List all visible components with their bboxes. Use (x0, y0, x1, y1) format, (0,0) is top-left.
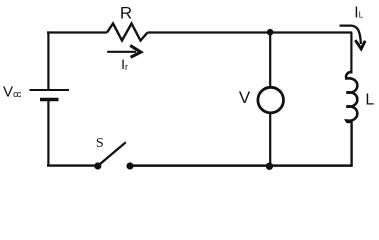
inductor L coil (346, 72, 357, 123)
wire right vertical lower (350, 121, 352, 167)
switch contact dot (126, 162, 133, 169)
wire top-right horizontal (148, 31, 353, 33)
switch pivot dot (94, 162, 101, 169)
wire bottom-right horizontal (130, 164, 352, 167)
svg-text:S: S (96, 136, 104, 151)
current arrow IL head (355, 40, 365, 49)
wire left vertical (47, 31, 49, 89)
wire right vertical upper (350, 33, 352, 74)
svg-text:L: L (365, 92, 374, 109)
junction node bottom (266, 163, 273, 170)
voltmeter V circle (258, 87, 284, 113)
current arrow IL curve (340, 26, 361, 44)
svg-text:V: V (239, 88, 251, 107)
svg-text:R: R (120, 3, 132, 22)
wire bottom-left horizontal (47, 164, 97, 166)
wire middle branch upper (269, 33, 271, 88)
current arrow Ir shaft (107, 51, 136, 53)
battery Vcc top plate (30, 89, 70, 91)
resistor R (107, 24, 148, 41)
junction node top (267, 29, 274, 36)
wire top-left horizontal (47, 31, 107, 33)
switch S blade (98, 142, 126, 166)
battery Vcc bottom plate (40, 98, 59, 101)
wire left-lower vertical (47, 100, 49, 167)
current arrow Ir head (130, 45, 141, 57)
wire middle branch lower (269, 113, 271, 166)
